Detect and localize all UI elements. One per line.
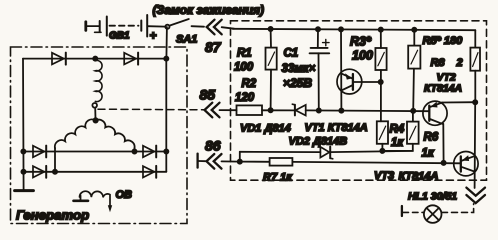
svg-text:85: 85 [200, 87, 216, 103]
diode VD gen top-left [52, 53, 66, 65]
terminal HL1 left bar [401, 206, 403, 216]
transistor VT1 [337, 29, 381, 110]
ground generator [15, 189, 34, 192]
resistor R6 [382, 111, 418, 151]
svg-text:R6: R6 [424, 132, 439, 144]
svg-text:2: 2 [456, 57, 463, 69]
node C1-85line [317, 108, 321, 112]
svg-text:HL1 30/51: HL1 30/51 [408, 191, 457, 203]
wire generator top [23, 58, 166, 60]
connector 86 [207, 154, 222, 169]
terminal 86 bar [196, 154, 198, 168]
wire 86 stub [199, 160, 206, 162]
svg-text:GB1: GB1 [109, 31, 130, 42]
stator winding left leg [55, 119, 96, 148]
wire R7 line [240, 161, 270, 163]
svg-text:ОВ: ОВ [116, 189, 133, 201]
diode VD gen top-right [124, 53, 138, 65]
node bus-VT1 [339, 27, 343, 31]
switch SA1 [165, 19, 204, 29]
node stator coil top [93, 57, 97, 61]
terminal circle star point [92, 103, 97, 108]
node row1 right [164, 149, 168, 153]
wire star stub [94, 108, 96, 119]
svg-text:R4: R4 [390, 124, 405, 136]
generator enclosure [11, 47, 188, 224]
svg-text:R5* 180: R5* 180 [423, 35, 464, 47]
wire 85 line middle [306, 109, 429, 112]
lamp HL1 [424, 205, 442, 223]
svg-text:+: + [150, 29, 157, 43]
stator winding right leg [96, 120, 135, 148]
resistor R7 [270, 158, 293, 166]
svg-text:VD2 Д814В: VD2 Д814В [289, 136, 348, 148]
node left leg row2 [53, 170, 57, 174]
diode VD row1-right [143, 146, 156, 158]
svg-text:87: 87 [205, 39, 222, 55]
svg-text:33мк×: 33мк× [282, 63, 316, 75]
resistor R1 [266, 29, 277, 110]
resistor R5 [408, 30, 420, 111]
arrow OB rotor [108, 205, 112, 212]
node row2 left [21, 170, 25, 174]
svg-text:86: 86 [205, 138, 221, 154]
connector 85 [205, 103, 220, 118]
stator winding coil [95, 60, 102, 101]
wire R8 down to VT3 [474, 102, 477, 188]
wire 87 to bus [222, 27, 234, 29]
node star apex [93, 118, 97, 122]
battery GB1 [86, 15, 166, 37]
svg-text:VT1 КТ814А: VT1 КТ814А [305, 122, 368, 134]
zener VD1 [292, 104, 305, 115]
svg-text:R8: R8 [431, 57, 446, 69]
wire 85 into box [220, 109, 237, 111]
resistor R2 [237, 105, 263, 115]
node VT1-85line [339, 109, 343, 113]
node VT2 collector VT3 base [442, 161, 446, 165]
svg-text:SA1: SA1 [176, 34, 197, 46]
wire 85 dashed from star [98, 108, 204, 111]
svg-text:120: 120 [235, 92, 255, 104]
node R1-85line [269, 108, 273, 112]
wire left leg drop [54, 148, 56, 172]
node R4 VD2 line [380, 149, 384, 153]
svg-text:R7 1к: R7 1к [263, 172, 293, 184]
wire rectifier row2 [24, 171, 167, 173]
arrow output down [466, 188, 485, 204]
svg-text:×25В: ×25В [283, 76, 312, 90]
diode VD row1-left [33, 146, 46, 158]
wire +12V bus [233, 29, 476, 30]
resistor R3 [375, 30, 386, 122]
node VT1 base R3 R4 [379, 80, 383, 84]
node bus-R5 [412, 28, 416, 32]
svg-text:R1: R1 [237, 48, 252, 60]
node bus-R1 [269, 27, 273, 31]
svg-text:100: 100 [234, 62, 254, 74]
wire 86 jog up [239, 152, 241, 162]
node R5-R6-85line [411, 109, 415, 113]
svg-text:Генератор: Генератор [16, 208, 89, 223]
node 86 junction [238, 160, 242, 164]
transistor VT3 [454, 152, 478, 176]
svg-text:КТ814А: КТ814А [424, 83, 462, 95]
svg-text:VT3: VT3 [374, 170, 394, 182]
svg-text:КТ814А: КТ814А [399, 171, 439, 183]
capacitor C1 [310, 29, 330, 110]
wire rectifier row1 [23, 151, 166, 153]
wire R2 to VD1 [262, 109, 295, 111]
field winding OB [80, 191, 111, 206]
regulator enclosure [231, 21, 487, 180]
svg-text:R3*: R3* [350, 35, 372, 49]
wire VD2 line [240, 151, 413, 152]
resistor R8 [470, 30, 480, 102]
node bus-R3 [379, 28, 383, 32]
zener VD2 [320, 147, 332, 159]
wire SA1 node down [165, 27, 168, 59]
ground OB winding [74, 196, 89, 201]
svg-text:R2: R2 [242, 78, 257, 90]
svg-text:(Замок зажигания): (Замок зажигания) [153, 3, 265, 17]
wire 86 into box [222, 160, 240, 162]
wire HL1 right dashed [442, 204, 474, 213]
wire generator left bus [22, 59, 25, 191]
resistor R4 [377, 121, 388, 151]
node R8 VT2 emitter [473, 100, 477, 104]
transistor VT2 [423, 101, 475, 163]
node bus-C1 [316, 27, 320, 31]
label + C1 [323, 39, 329, 45]
svg-text:VD1 Д814: VD1 Д814 [240, 123, 291, 135]
node generator top junction [164, 57, 168, 61]
connector 87 [207, 20, 222, 35]
wire generator right bus [165, 59, 167, 172]
diode VD row2-right [143, 166, 156, 178]
svg-text:1к: 1к [391, 137, 404, 149]
svg-text:100: 100 [352, 49, 373, 63]
wire R7 to VT3 base [292, 162, 460, 163]
svg-text:C1: C1 [284, 48, 299, 60]
wire right leg drop [134, 148, 136, 152]
node right leg row1 [132, 149, 136, 153]
node row1 left [21, 149, 25, 153]
svg-text:1к: 1к [422, 148, 435, 160]
diode VD row2-left [33, 166, 46, 178]
wire HL1 left dashed [403, 211, 424, 213]
